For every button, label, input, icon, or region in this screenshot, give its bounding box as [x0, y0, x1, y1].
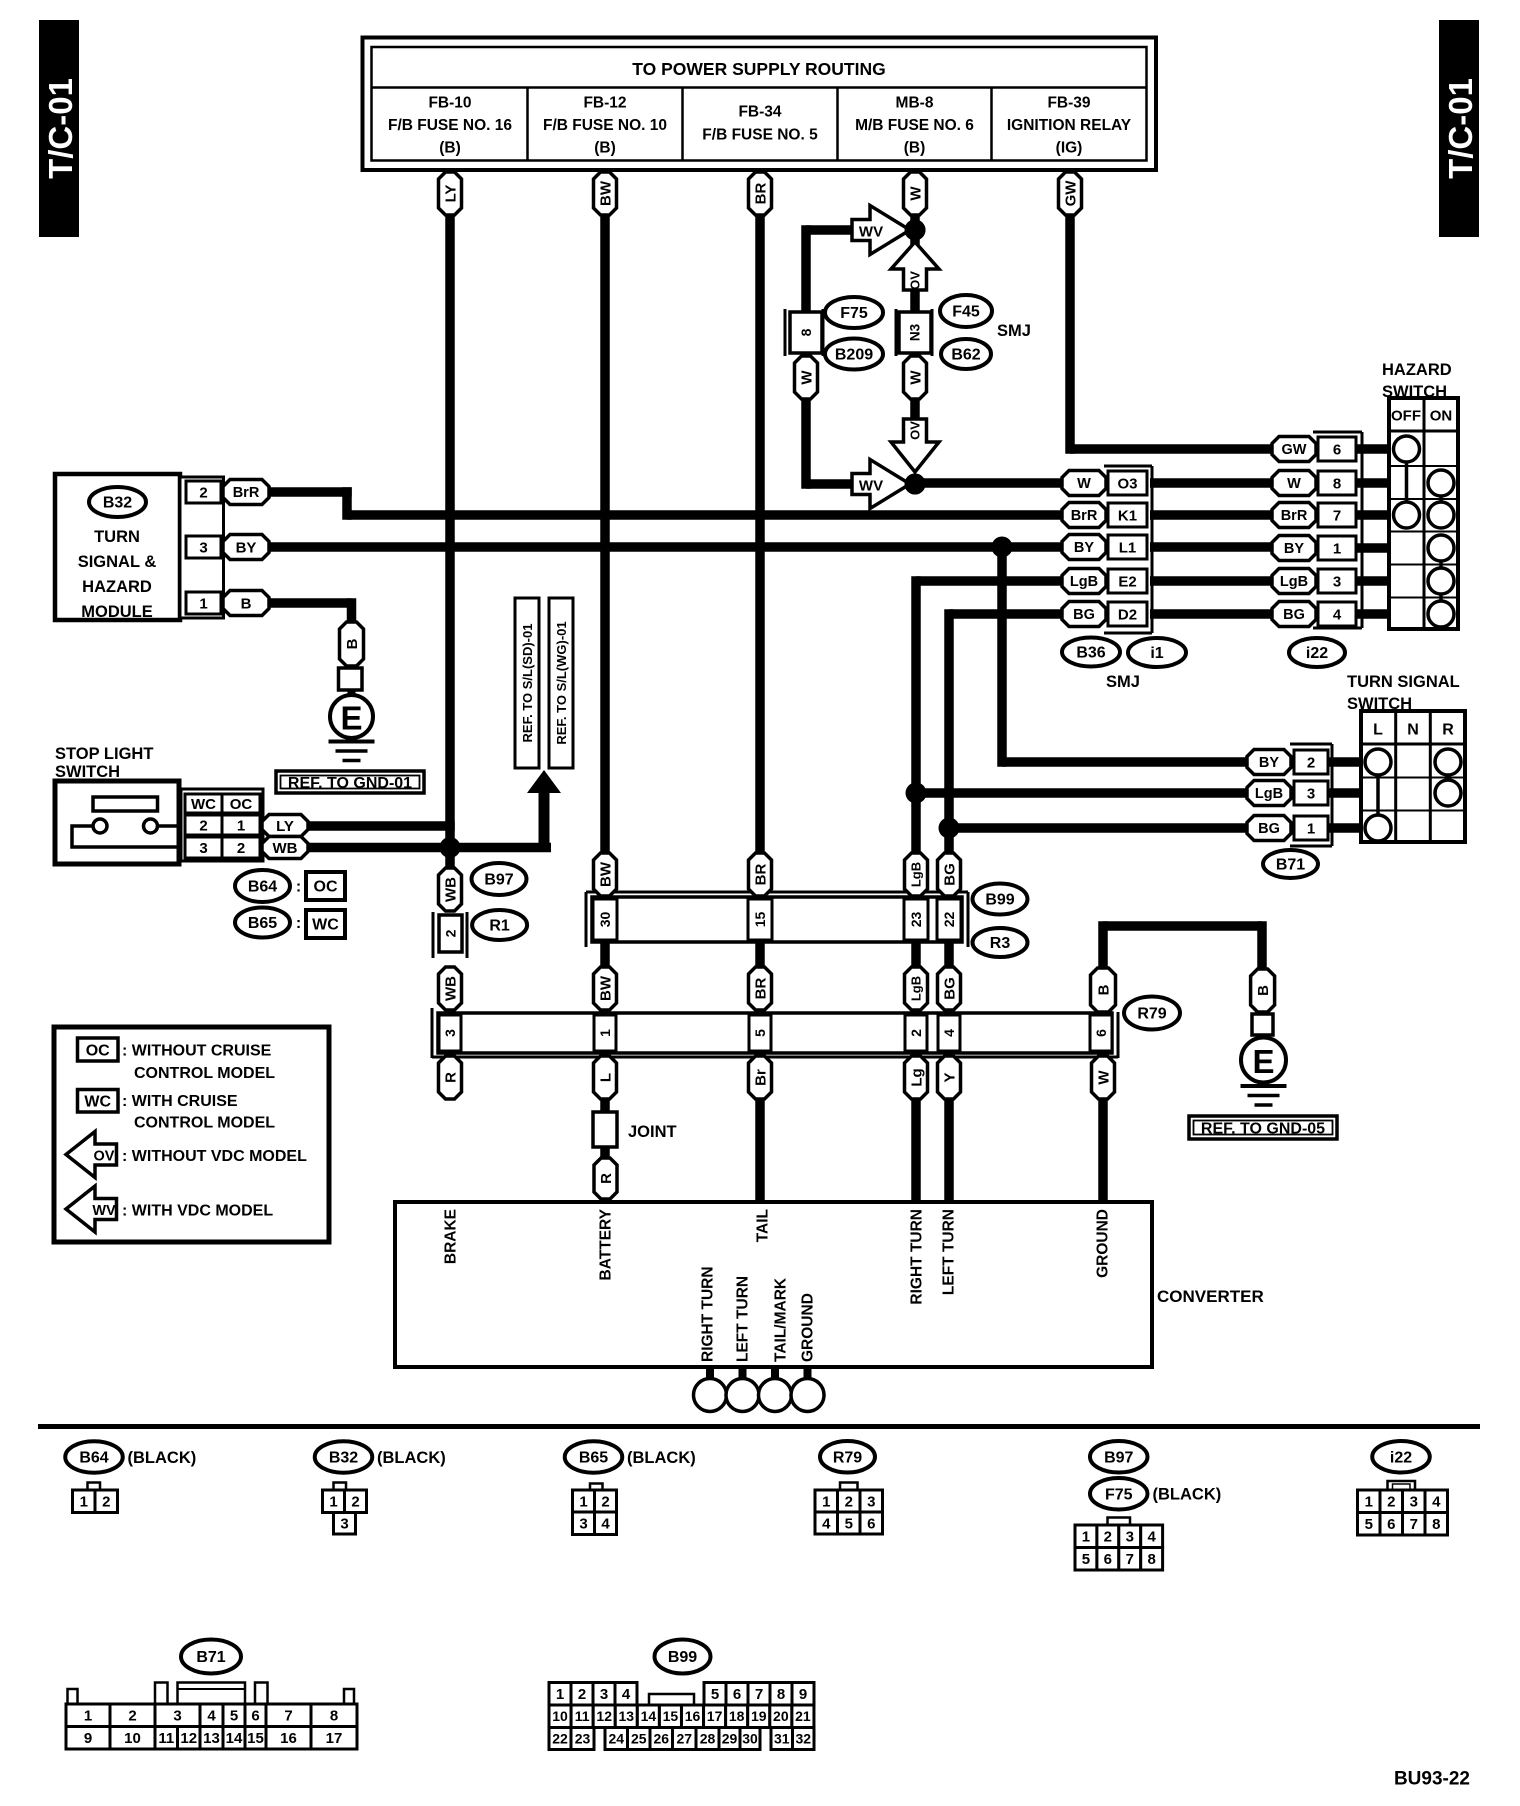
svg-text:7: 7	[1410, 1516, 1418, 1533]
svg-text:13: 13	[618, 1708, 634, 1724]
svg-text:7: 7	[1126, 1551, 1134, 1568]
svg-text:20: 20	[773, 1708, 789, 1724]
svg-text:28: 28	[700, 1730, 716, 1746]
svg-text:W: W	[1095, 1070, 1112, 1085]
svg-text:4: 4	[622, 1686, 631, 1703]
svg-text:8: 8	[1432, 1516, 1440, 1533]
svg-text:2: 2	[1307, 754, 1315, 771]
svg-text:4: 4	[601, 1516, 610, 1533]
svg-text:B209: B209	[835, 347, 873, 364]
svg-text:8: 8	[777, 1686, 785, 1703]
svg-text:SMJ: SMJ	[997, 322, 1031, 340]
svg-text:2: 2	[199, 817, 207, 834]
svg-text:31: 31	[774, 1730, 790, 1746]
svg-text:30: 30	[597, 912, 613, 928]
svg-text:LgB: LgB	[1280, 574, 1308, 590]
svg-text:1: 1	[556, 1686, 564, 1703]
svg-text:R79: R79	[833, 1449, 862, 1466]
svg-text:SMJ: SMJ	[1106, 673, 1140, 691]
svg-text:BY: BY	[1284, 541, 1304, 557]
svg-text:(BLACK): (BLACK)	[377, 1449, 446, 1467]
svg-text:3: 3	[600, 1686, 608, 1703]
svg-text:Y: Y	[941, 1072, 958, 1082]
svg-text:15: 15	[752, 912, 768, 928]
svg-text:CONTROL MODEL: CONTROL MODEL	[134, 1065, 275, 1082]
svg-text:1: 1	[84, 1708, 92, 1725]
svg-text:1: 1	[822, 1493, 830, 1510]
svg-text:GW: GW	[1282, 442, 1307, 458]
svg-text:3: 3	[1307, 785, 1315, 802]
svg-text:W: W	[907, 370, 924, 385]
svg-text:B64: B64	[248, 879, 277, 896]
svg-text:OC: OC	[314, 879, 338, 896]
svg-text:4: 4	[1432, 1494, 1441, 1511]
svg-text:6: 6	[1093, 1029, 1109, 1037]
svg-text:BG: BG	[1283, 607, 1305, 623]
svg-text:TO POWER SUPPLY ROUTING: TO POWER SUPPLY ROUTING	[632, 59, 885, 79]
svg-text:B65: B65	[579, 1450, 608, 1467]
svg-text:32: 32	[795, 1730, 811, 1746]
svg-text:SWITCH: SWITCH	[55, 763, 120, 781]
svg-text:IGNITION RELAY: IGNITION RELAY	[1007, 117, 1132, 134]
svg-text:WB: WB	[442, 976, 459, 1001]
svg-text:CONTROL MODEL: CONTROL MODEL	[134, 1115, 275, 1132]
svg-text:BG: BG	[1258, 821, 1280, 837]
svg-text:RIGHT TURN: RIGHT TURN	[908, 1209, 925, 1305]
svg-text:2: 2	[442, 929, 458, 937]
svg-text:7: 7	[755, 1686, 763, 1703]
svg-text:B: B	[1095, 984, 1112, 995]
svg-text:BrR: BrR	[233, 485, 260, 501]
svg-text:15: 15	[663, 1708, 679, 1724]
svg-text:10: 10	[552, 1708, 568, 1724]
svg-text:Lg: Lg	[908, 1068, 925, 1086]
svg-text:D2: D2	[1118, 606, 1137, 623]
svg-text:(BLACK): (BLACK)	[627, 1449, 696, 1467]
svg-text:25: 25	[631, 1730, 647, 1746]
svg-text:WV: WV	[859, 223, 883, 240]
svg-text:6: 6	[733, 1686, 741, 1703]
svg-text:OV: OV	[908, 421, 923, 440]
svg-text:GW: GW	[1062, 180, 1079, 207]
svg-text:11: 11	[158, 1730, 174, 1747]
svg-text:GROUND: GROUND	[1094, 1209, 1111, 1278]
svg-text:14: 14	[226, 1730, 243, 1747]
svg-text:FB-39: FB-39	[1047, 94, 1090, 111]
svg-text:1: 1	[329, 1494, 337, 1511]
svg-text:5: 5	[845, 1515, 853, 1532]
svg-text:24: 24	[608, 1730, 624, 1746]
svg-text:: WITH VDC MODEL: : WITH VDC MODEL	[122, 1203, 273, 1220]
svg-text:12: 12	[596, 1708, 612, 1724]
svg-text:BW: BW	[597, 975, 614, 1001]
svg-text:B36: B36	[1076, 645, 1105, 662]
svg-text:2: 2	[237, 840, 245, 857]
svg-text:2: 2	[128, 1708, 136, 1725]
svg-text:N3: N3	[908, 323, 923, 341]
svg-text:B: B	[1255, 985, 1272, 996]
svg-text:4: 4	[1147, 1529, 1156, 1546]
svg-text:3: 3	[173, 1708, 181, 1725]
svg-text:W: W	[1287, 476, 1301, 492]
svg-text:L: L	[597, 1073, 614, 1082]
svg-text:TAIL: TAIL	[754, 1209, 771, 1242]
svg-text:4: 4	[1333, 606, 1342, 623]
svg-text:BR: BR	[752, 183, 769, 205]
svg-text:B99: B99	[985, 892, 1014, 909]
svg-text:2: 2	[351, 1494, 359, 1511]
svg-text:(B): (B)	[594, 139, 616, 156]
svg-text:MODULE: MODULE	[81, 603, 153, 621]
svg-text:B99: B99	[668, 1649, 697, 1666]
svg-text:3: 3	[340, 1516, 348, 1533]
svg-text:8: 8	[330, 1708, 338, 1725]
svg-text:16: 16	[685, 1708, 701, 1724]
svg-text:OC: OC	[86, 1043, 110, 1060]
svg-text:LEFT TURN: LEFT TURN	[734, 1276, 751, 1362]
svg-text:BW: BW	[597, 180, 614, 206]
svg-text:30: 30	[742, 1730, 758, 1746]
svg-text:1: 1	[237, 817, 245, 834]
svg-text:R1: R1	[489, 918, 510, 935]
svg-text:W: W	[907, 186, 924, 201]
svg-text:2: 2	[102, 1494, 110, 1511]
svg-text:OV: OV	[94, 1149, 115, 1165]
svg-text:R3: R3	[990, 935, 1011, 952]
svg-text::: :	[296, 915, 301, 932]
svg-text:BRAKE: BRAKE	[442, 1209, 459, 1264]
svg-text:1: 1	[1365, 1494, 1373, 1511]
svg-text:GROUND: GROUND	[799, 1293, 816, 1362]
svg-text:TURN SIGNAL: TURN SIGNAL	[1347, 673, 1460, 691]
svg-text:8: 8	[1147, 1551, 1155, 1568]
svg-text:REF. TO S/L(WG)-01: REF. TO S/L(WG)-01	[554, 621, 569, 744]
svg-text:23: 23	[908, 912, 924, 928]
svg-text:F75: F75	[1105, 1486, 1133, 1503]
svg-text:i22: i22	[1390, 1449, 1412, 1466]
svg-text:B65: B65	[248, 915, 277, 932]
svg-text:1: 1	[1333, 540, 1341, 557]
svg-text:RIGHT TURN: RIGHT TURN	[699, 1266, 716, 1362]
svg-text:3: 3	[867, 1493, 875, 1510]
svg-text:3: 3	[579, 1516, 587, 1533]
svg-text:R: R	[598, 1173, 615, 1184]
svg-text:L1: L1	[1119, 539, 1137, 556]
svg-text:B71: B71	[1276, 857, 1305, 874]
svg-text:LgB: LgB	[1255, 786, 1283, 802]
svg-text:6: 6	[1333, 441, 1341, 458]
svg-text:3: 3	[199, 539, 207, 556]
svg-text:B62: B62	[951, 347, 980, 364]
svg-text:21: 21	[795, 1708, 811, 1724]
svg-text:3: 3	[1333, 573, 1341, 590]
svg-text:29: 29	[722, 1730, 738, 1746]
svg-text:B97: B97	[484, 872, 513, 889]
svg-text:F45: F45	[952, 304, 980, 321]
svg-text:R79: R79	[1137, 1006, 1166, 1023]
svg-text:B: B	[344, 638, 361, 649]
svg-text:(IG): (IG)	[1056, 139, 1083, 156]
svg-text:12: 12	[180, 1730, 197, 1747]
svg-text:B32: B32	[103, 495, 132, 512]
svg-text:LgB: LgB	[1070, 574, 1098, 590]
svg-text:17: 17	[326, 1730, 343, 1747]
svg-text:WB: WB	[442, 877, 459, 902]
svg-text:WV: WV	[859, 477, 883, 494]
svg-text:BY: BY	[1074, 540, 1094, 556]
svg-text:HAZARD: HAZARD	[82, 578, 152, 596]
svg-text:i1: i1	[1150, 645, 1163, 662]
svg-text:F/B FUSE NO. 16: F/B FUSE NO. 16	[388, 117, 512, 134]
svg-text:3: 3	[442, 1029, 458, 1037]
svg-text:3: 3	[199, 840, 207, 857]
svg-text:(B): (B)	[904, 139, 926, 156]
svg-text:1: 1	[199, 595, 207, 612]
svg-text:FB-34: FB-34	[738, 103, 781, 120]
svg-text:SIGNAL &: SIGNAL &	[78, 553, 157, 571]
svg-text:L: L	[1373, 722, 1383, 739]
svg-text:BrR: BrR	[1071, 508, 1098, 524]
svg-text:26: 26	[653, 1730, 669, 1746]
svg-text:(B): (B)	[439, 139, 461, 156]
svg-text:E: E	[340, 700, 362, 737]
svg-text:7: 7	[284, 1708, 292, 1725]
svg-text:: WITH CRUISE: : WITH CRUISE	[122, 1093, 238, 1110]
svg-text:13: 13	[203, 1730, 220, 1747]
svg-text:WB: WB	[273, 840, 298, 857]
svg-text:1: 1	[80, 1494, 88, 1511]
svg-text:F/B FUSE NO. 10: F/B FUSE NO. 10	[543, 117, 667, 134]
svg-text:F75: F75	[840, 305, 868, 322]
svg-text:BATTERY: BATTERY	[597, 1208, 614, 1280]
svg-text:E: E	[1252, 1043, 1274, 1080]
svg-text:BW: BW	[597, 861, 614, 887]
svg-text:OC: OC	[230, 796, 253, 813]
svg-text:10: 10	[124, 1730, 141, 1747]
svg-text:5: 5	[752, 1029, 768, 1037]
svg-text:O3: O3	[1117, 475, 1137, 492]
svg-text:19: 19	[751, 1708, 767, 1724]
svg-text:5: 5	[711, 1686, 719, 1703]
svg-text:MB-8: MB-8	[896, 94, 934, 111]
svg-text:16: 16	[280, 1730, 297, 1747]
svg-text:(BLACK): (BLACK)	[128, 1449, 197, 1467]
svg-text:BG: BG	[941, 977, 958, 1000]
svg-text:6: 6	[1387, 1516, 1395, 1533]
svg-text:ON: ON	[1430, 407, 1453, 424]
svg-text:WC: WC	[84, 1094, 111, 1111]
svg-text:TURN: TURN	[94, 528, 140, 546]
svg-text:E2: E2	[1118, 573, 1136, 590]
svg-text:WC: WC	[191, 796, 216, 813]
svg-text:1: 1	[1082, 1529, 1090, 1546]
svg-text:2: 2	[199, 484, 207, 501]
svg-text:FB-12: FB-12	[583, 94, 626, 111]
svg-text:B: B	[241, 595, 252, 612]
svg-text:B64: B64	[79, 1450, 108, 1467]
svg-text:: WITHOUT VDC MODEL: : WITHOUT VDC MODEL	[122, 1148, 307, 1165]
svg-text:9: 9	[799, 1686, 807, 1703]
svg-text:REF. TO S/L(SD)-01: REF. TO S/L(SD)-01	[520, 624, 535, 743]
svg-text:2: 2	[1104, 1529, 1112, 1546]
svg-text:CONVERTER: CONVERTER	[1157, 1287, 1264, 1306]
svg-text:LgB: LgB	[909, 976, 924, 1001]
svg-text:6: 6	[1104, 1551, 1112, 1568]
svg-text:: WITHOUT CRUISE: : WITHOUT CRUISE	[122, 1043, 272, 1060]
svg-text:11: 11	[575, 1708, 590, 1724]
svg-text:6: 6	[867, 1515, 875, 1532]
svg-text:18: 18	[729, 1708, 745, 1724]
svg-text:BG: BG	[1073, 607, 1095, 623]
svg-text:BR: BR	[752, 864, 769, 886]
svg-text:3: 3	[1126, 1529, 1134, 1546]
svg-text:2: 2	[908, 1029, 924, 1037]
svg-text:N: N	[1407, 722, 1419, 739]
svg-text:i22: i22	[1306, 645, 1328, 662]
svg-text:FB-10: FB-10	[428, 94, 471, 111]
svg-text:15: 15	[247, 1730, 264, 1747]
svg-text:K1: K1	[1118, 507, 1137, 524]
svg-text:WC: WC	[312, 917, 339, 934]
svg-text:M/B FUSE NO. 6: M/B FUSE NO. 6	[855, 117, 974, 134]
svg-text:(BLACK): (BLACK)	[1153, 1486, 1222, 1504]
svg-text:LEFT TURN: LEFT TURN	[940, 1209, 957, 1295]
svg-text:BrR: BrR	[1281, 508, 1308, 524]
svg-text:3: 3	[1410, 1494, 1418, 1511]
svg-text:5: 5	[1365, 1516, 1373, 1533]
svg-text:23: 23	[575, 1730, 591, 1746]
svg-text:22: 22	[552, 1730, 568, 1746]
svg-text:4: 4	[207, 1708, 216, 1725]
svg-text:1: 1	[597, 1029, 613, 1037]
svg-text:BY: BY	[1259, 755, 1279, 771]
svg-text:STOP LIGHT: STOP LIGHT	[55, 745, 153, 763]
svg-text:LY: LY	[442, 185, 459, 203]
svg-text:Br: Br	[752, 1069, 769, 1086]
svg-text:2: 2	[601, 1493, 609, 1510]
svg-text:5: 5	[1082, 1551, 1090, 1568]
svg-text:B97: B97	[1104, 1449, 1133, 1466]
svg-text:BU93-22: BU93-22	[1394, 1769, 1470, 1790]
svg-text:REF. TO GND-05: REF. TO GND-05	[1201, 1121, 1325, 1138]
svg-text:LgB: LgB	[909, 862, 924, 887]
svg-text:7: 7	[1333, 507, 1341, 524]
svg-text::: :	[296, 879, 301, 896]
svg-text:OFF: OFF	[1391, 407, 1421, 424]
svg-text:HAZARD: HAZARD	[1382, 361, 1452, 379]
svg-text:2: 2	[845, 1493, 853, 1510]
svg-text:B71: B71	[196, 1649, 225, 1666]
svg-text:17: 17	[707, 1708, 723, 1724]
svg-text:4: 4	[822, 1515, 831, 1532]
svg-text:OV: OV	[908, 271, 923, 290]
svg-text:JOINT: JOINT	[628, 1123, 677, 1141]
svg-text:14: 14	[641, 1708, 657, 1724]
svg-text:BY: BY	[236, 539, 257, 556]
svg-text:BR: BR	[752, 978, 769, 1000]
svg-text:9: 9	[84, 1730, 92, 1747]
svg-text:REF. TO GND-01: REF. TO GND-01	[288, 775, 412, 792]
svg-text:22: 22	[941, 912, 957, 928]
svg-text:4: 4	[941, 1029, 957, 1037]
svg-text:8: 8	[798, 328, 814, 336]
svg-text:W: W	[798, 370, 815, 385]
svg-text:1: 1	[1307, 820, 1315, 837]
svg-text:LY: LY	[276, 818, 294, 835]
svg-text:TAIL/MARK: TAIL/MARK	[772, 1277, 789, 1362]
svg-text:5: 5	[230, 1708, 238, 1725]
svg-text:2: 2	[1387, 1494, 1395, 1511]
svg-text:27: 27	[676, 1730, 692, 1746]
svg-text:T/C-01: T/C-01	[1442, 78, 1479, 179]
svg-text:WV: WV	[92, 1203, 116, 1219]
svg-text:F/B FUSE NO. 5: F/B FUSE NO. 5	[702, 126, 818, 143]
svg-text:6: 6	[251, 1708, 259, 1725]
svg-text:R: R	[442, 1072, 459, 1083]
svg-text:1: 1	[579, 1493, 587, 1510]
svg-text:R: R	[1442, 722, 1454, 739]
svg-text:2: 2	[578, 1686, 586, 1703]
svg-text:T/C-01: T/C-01	[42, 78, 79, 179]
svg-text:W: W	[1077, 476, 1091, 492]
svg-text:B32: B32	[329, 1450, 358, 1467]
svg-text:8: 8	[1333, 475, 1341, 492]
svg-text:BG: BG	[941, 863, 958, 886]
